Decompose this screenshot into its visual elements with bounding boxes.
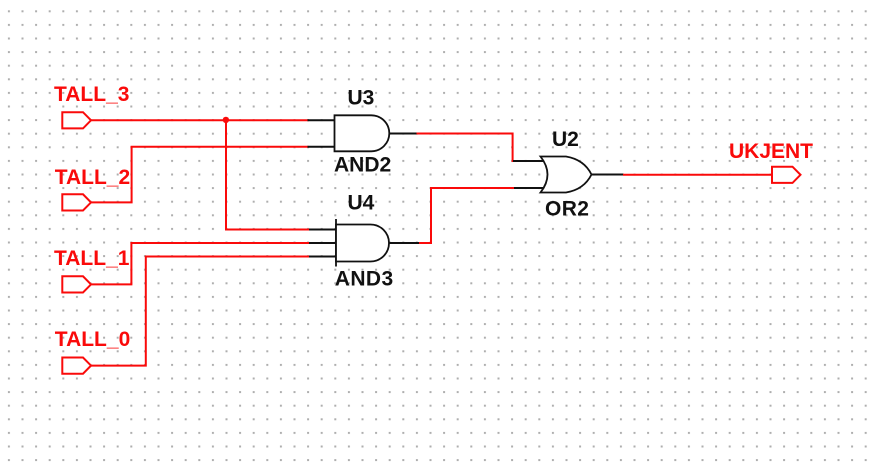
or-gate U2 pin stub input B xyxy=(514,187,545,189)
wire TALL_0 to U4 input C xyxy=(91,257,309,366)
or-gate U2 body xyxy=(541,157,592,193)
wire TALL_3 to U3 input A xyxy=(91,119,309,121)
svg-text:TALL_2: TALL_2 xyxy=(55,166,130,189)
junction dot on TALL_3 wire xyxy=(223,117,229,123)
and-gate U4 pin stub input B xyxy=(309,242,337,244)
svg-text:U3: U3 xyxy=(348,87,375,110)
svg-text:OR2: OR2 xyxy=(545,197,589,220)
or-gate U2 pin stub output xyxy=(592,174,624,176)
wire U3 output to U2 input A xyxy=(417,134,515,162)
and-gate U4 pin stub input C xyxy=(309,256,337,258)
svg-text:AND2: AND2 xyxy=(334,154,391,177)
wire junction down to U4 input A xyxy=(226,120,309,229)
svg-text:TALL_0: TALL_0 xyxy=(55,328,130,351)
svg-text:U4: U4 xyxy=(348,191,375,214)
wire TALL_2 to U3 input B xyxy=(91,147,309,203)
port UKJENT xyxy=(772,167,801,183)
svg-text:UKJENT: UKJENT xyxy=(729,140,813,163)
and-gate U4 pin stub output xyxy=(389,242,420,244)
wire U4 output to U2 input B xyxy=(419,188,515,243)
port TALL_1 xyxy=(62,276,91,292)
port TALL_2 xyxy=(62,194,91,210)
and-gate U3 pin stub input B xyxy=(308,146,336,148)
svg-text:AND3: AND3 xyxy=(335,268,394,291)
svg-text:TALL_1: TALL_1 xyxy=(54,247,130,270)
and-gate U3 pin stub input A xyxy=(308,119,336,121)
wire U2 output to UKJENT port xyxy=(623,174,772,176)
and-gate U4 body xyxy=(336,225,389,262)
and-gate U4 pin stub input A xyxy=(309,229,337,231)
or-gate U2 pin stub input A xyxy=(513,160,545,162)
port TALL_3 xyxy=(62,112,91,128)
and-gate U4 input bar xyxy=(335,219,337,267)
svg-text:U2: U2 xyxy=(552,128,579,151)
and-gate U3 pin stub output xyxy=(390,133,418,135)
svg-text:TALL_3: TALL_3 xyxy=(54,83,129,106)
port TALL_0 xyxy=(62,358,91,374)
and-gate U3 body xyxy=(335,115,390,151)
wire TALL_1 to U4 input B xyxy=(91,243,309,284)
